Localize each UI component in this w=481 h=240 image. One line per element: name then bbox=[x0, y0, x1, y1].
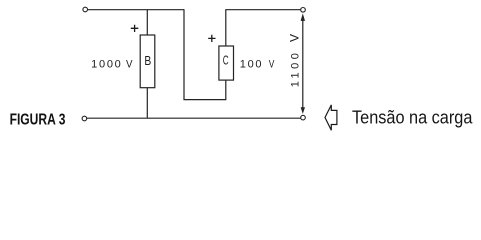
svg-text:FIGURA 3: FIGURA 3 bbox=[10, 111, 66, 128]
terminal bottom-left bbox=[82, 116, 87, 121]
polarity + of battery C bbox=[208, 35, 215, 42]
svg-text:B: B bbox=[144, 54, 151, 68]
svg-text:Tensão na carga: Tensão na carga bbox=[352, 107, 473, 127]
measurement arrowhead down bbox=[301, 107, 305, 114]
polarity + of battery B bbox=[131, 25, 139, 32]
svg-text:V: V bbox=[290, 34, 302, 42]
measurement line for 1100 V bbox=[302, 16, 304, 112]
battery C body bbox=[219, 46, 234, 80]
terminal top-right bbox=[301, 8, 306, 13]
wire battery C top lead bbox=[225, 10, 227, 46]
label 1100 V (rotated, measurement value) bbox=[290, 34, 302, 88]
svg-text:V: V bbox=[269, 58, 275, 70]
measurement arrowhead up bbox=[301, 13, 305, 21]
svg-text:100: 100 bbox=[240, 58, 262, 70]
wire step: down, right, up into battery C bottom bbox=[184, 9, 226, 99]
terminal top-left bbox=[83, 7, 88, 12]
wire top-left horizontal to corner bbox=[88, 9, 185, 11]
svg-text:V: V bbox=[126, 59, 133, 71]
wire bottom horizontal bbox=[87, 117, 301, 119]
svg-text:C: C bbox=[223, 54, 229, 68]
wire battery B bottom lead bbox=[146, 88, 148, 119]
svg-text:1000: 1000 bbox=[91, 59, 121, 71]
wire battery B top lead bbox=[146, 10, 148, 35]
battery B body bbox=[140, 35, 155, 88]
terminal bottom-right bbox=[301, 115, 306, 120]
block arrow pointing left bbox=[325, 105, 337, 130]
wire top-right horizontal to terminal bbox=[225, 9, 300, 11]
